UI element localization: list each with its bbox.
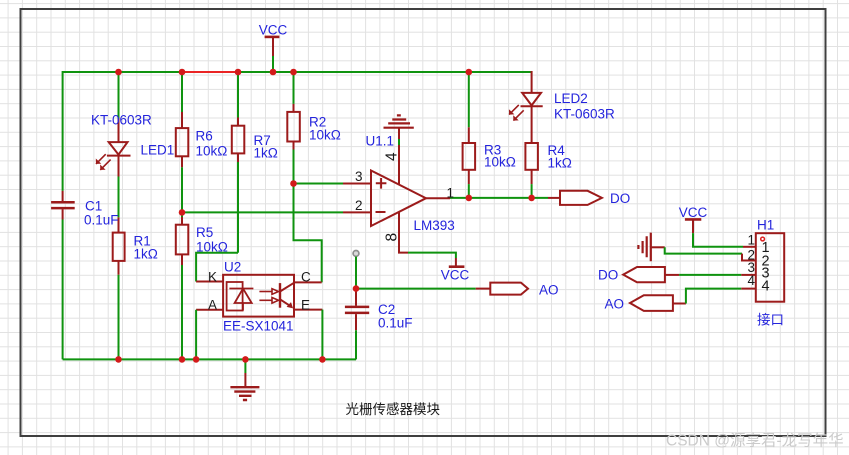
wire: bottom ground bus — [63, 358, 356, 360]
svg-text:10kΩ: 10kΩ — [196, 144, 228, 159]
svg-text:AO: AO — [539, 283, 559, 298]
svg-text:10kΩ: 10kΩ — [309, 128, 341, 143]
pin stub: U2 pin A — [196, 309, 223, 311]
ground symbol above op-amp pin 4 — [384, 115, 414, 127]
svg-text:4: 4 — [384, 152, 401, 161]
junction: VCC stem / top bus — [270, 69, 277, 76]
wire: pin3 node to op-amp pin 3 — [294, 183, 344, 185]
svg-text:1: 1 — [447, 186, 455, 201]
junction: R6 column / top bus — [179, 69, 186, 76]
junction: R1 / ground bus — [115, 356, 122, 363]
svg-text:LED2: LED2 — [554, 91, 588, 106]
svg-text:R5: R5 — [196, 225, 213, 240]
junction: output node at R3 — [466, 195, 473, 202]
netflag DO input at header — [623, 267, 665, 282]
svg-text:A: A — [208, 298, 217, 313]
junction: R2 column / top bus — [290, 69, 297, 76]
wire: ground to H1 pin 2 — [665, 247, 742, 253]
wire: short green piece on pin 4 stem — [398, 139, 400, 145]
pin stub: H1 pin 2 jog — [742, 254, 756, 261]
U2 emitter LED compartment — [227, 282, 254, 311]
wire: E pin to ground bus — [321, 310, 323, 360]
wire: R5 to ground bus — [181, 265, 183, 359]
pin stub: op-amp pin 4 stem — [398, 128, 400, 184]
svg-text:CSDN @源享君-龙写年华: CSDN @源享君-龙写年华 — [666, 432, 844, 450]
svg-text:LED1: LED1 — [141, 143, 175, 158]
pin stub: H1 pin 3 — [741, 274, 755, 276]
svg-text:VCC: VCC — [441, 268, 470, 283]
wire: inverting input net to op-amp pin 2 — [182, 211, 343, 213]
wire: node A to R5 — [181, 212, 183, 217]
netflag DO output — [560, 191, 602, 205]
pin stub: DO flag lead — [548, 197, 560, 199]
wire: R3 to output node — [468, 184, 470, 198]
svg-text:VCC: VCC — [679, 205, 708, 220]
wire: bus to R3 — [468, 72, 470, 127]
pin stub: op-amp output pin 1 — [426, 197, 450, 199]
wire: bus to R6 — [181, 72, 183, 112]
svg-text:H1: H1 — [757, 218, 774, 233]
power symbol VCC top — [265, 37, 280, 56]
pin stub: H1 pin 4 — [741, 288, 755, 290]
svg-text:KT-0603R: KT-0603R — [554, 107, 615, 122]
LED2 KT-0603R — [509, 71, 543, 121]
optocoupler U2 EE-SX1041 body — [223, 275, 294, 317]
svg-text:U1.1: U1.1 — [366, 134, 395, 149]
resistor R1 — [113, 217, 125, 274]
LED1 KT-0603R — [96, 119, 131, 177]
pin stub: U2 pin K — [196, 281, 223, 283]
svg-text:1: 1 — [747, 233, 755, 248]
wire: ground stem below bus — [244, 359, 246, 373]
wire: top VCC bus right segment — [238, 71, 532, 73]
wire: VCC to H1 pin 1 — [693, 233, 743, 247]
wire: C2 to ground bus — [355, 330, 357, 359]
U2 phototransistor — [280, 283, 294, 309]
junction: R3 column / top bus — [466, 69, 473, 76]
svg-text:0.1uF: 0.1uF — [84, 213, 119, 228]
svg-text:KT-0603R: KT-0603R — [91, 113, 152, 128]
junction: R2 node to op-amp pin 3 — [290, 180, 297, 187]
svg-text:DO: DO — [610, 191, 630, 206]
svg-text:R6: R6 — [196, 129, 213, 144]
wire: output node to DO flag — [450, 197, 548, 199]
wire: DO to H1 pin 3 — [679, 274, 741, 276]
junction: output node at R4 — [528, 195, 535, 202]
pin stub: AO flag lead at header — [673, 303, 686, 305]
pin stub: DO flag lead at header — [665, 274, 679, 276]
svg-text:K: K — [208, 270, 217, 285]
op-amp U1.1 LM393 — [371, 171, 426, 227]
junction: R7 column / top bus — [235, 69, 242, 76]
wire: R1 to ground bus — [118, 275, 120, 360]
svg-text:10kΩ: 10kΩ — [196, 240, 228, 255]
ground symbol bottom — [230, 373, 259, 400]
svg-text:LM393: LM393 — [414, 218, 455, 233]
svg-text:10kΩ: 10kΩ — [484, 155, 516, 170]
capacitor C2 — [345, 289, 369, 331]
netflag AO output — [490, 283, 528, 295]
wire: LED1 to R1 — [118, 177, 120, 218]
junction: R6-R5 node to op-amp pin 2 — [179, 209, 186, 216]
svg-text:8: 8 — [384, 233, 401, 242]
connector H1 body — [756, 233, 784, 302]
wire: K net horizontal and drop — [196, 253, 238, 282]
svg-text:4: 4 — [747, 273, 755, 288]
junction: U2 pin E / ground bus — [319, 356, 326, 363]
junction: ground stem / ground bus — [242, 356, 249, 363]
power symbol VCC below op-amp — [449, 258, 465, 267]
svg-text:AO: AO — [605, 297, 625, 312]
wire: R4 to output wire — [531, 184, 533, 198]
U2 light arrows — [259, 289, 278, 303]
junction: LED1 column / top bus — [115, 69, 122, 76]
svg-text:2: 2 — [355, 198, 363, 213]
svg-text:4: 4 — [762, 279, 770, 295]
junction: AO node at C2 — [353, 285, 360, 292]
wire: LED1 anode drop — [118, 72, 120, 119]
wire: A pin to ground bus — [195, 310, 197, 360]
ground symbol at header (rotated) — [638, 233, 664, 262]
svg-text:E: E — [301, 298, 310, 313]
wire: AO node to AO flag — [356, 288, 476, 290]
wire: bus to R7 — [237, 72, 239, 118]
capacitor C1 — [51, 191, 75, 220]
wire: R2 to pin3 node — [293, 150, 295, 184]
resistor R2 — [287, 104, 300, 150]
op-amp plus input marker — [376, 178, 387, 189]
netflag AO input at header — [630, 295, 673, 311]
svg-text:VCC: VCC — [259, 23, 288, 38]
svg-text:DO: DO — [598, 268, 618, 283]
pin stub: op-amp pin 3 — [343, 183, 372, 185]
wire: bus to R2 — [293, 72, 295, 104]
pin stub: AO flag lead — [476, 288, 491, 290]
svg-text:3: 3 — [355, 169, 363, 184]
svg-text:C: C — [301, 270, 311, 285]
wire: R6 to node A junction — [181, 167, 183, 212]
svg-text:光栅传感器模块: 光栅传感器模块 — [346, 401, 441, 417]
svg-text:0.1uF: 0.1uF — [378, 316, 413, 331]
node: dangling wire end above C2 (gray) — [353, 251, 359, 257]
wire: left rail upper — [62, 71, 64, 191]
junction: U2 pin A / ground bus — [193, 356, 200, 363]
wire: R7 down to K net corner — [237, 162, 239, 253]
resistor R4 — [525, 106, 538, 184]
wire: top VCC bus left segment — [63, 71, 182, 73]
power symbol VCC at header — [685, 219, 701, 233]
op-amp minus input marker — [376, 211, 386, 213]
svg-text:U2: U2 — [224, 260, 241, 275]
pin stub: H1 pin 1 — [743, 246, 756, 248]
junction: R5 / ground bus — [179, 356, 186, 363]
pin stub: op-amp pin 2 — [343, 211, 372, 213]
pin stub: op-amp pin 8 — [399, 212, 408, 253]
svg-text:1kΩ: 1kΩ — [254, 146, 278, 161]
svg-text:1kΩ: 1kΩ — [134, 247, 158, 262]
pin stub: U2 pin C — [294, 281, 322, 283]
wire: pin3 node down to U2 pin C — [294, 184, 322, 283]
resistor R5 — [176, 217, 189, 265]
wire: top VCC bus highlighted red segment — [182, 71, 238, 73]
pin stub: U2 pin E — [294, 309, 322, 311]
resistor R6 — [176, 112, 189, 167]
H1 pin 1 indicator circle — [761, 237, 765, 241]
svg-text:1kΩ: 1kΩ — [548, 156, 572, 171]
resistor R3 — [463, 127, 476, 184]
resistor R7 — [232, 118, 245, 163]
wire: pin 8 to VCC — [408, 253, 456, 258]
wire: VCC stem to bus — [272, 56, 274, 72]
svg-text:接口: 接口 — [757, 312, 784, 328]
wire: AO to H1 pin 4 — [686, 289, 741, 304]
wire: dangling end down to AO node — [355, 257, 357, 289]
svg-text:EE-SX1041: EE-SX1041 — [223, 319, 294, 334]
wire: left rail lower — [62, 220, 64, 360]
svg-text:C1: C1 — [85, 199, 102, 214]
